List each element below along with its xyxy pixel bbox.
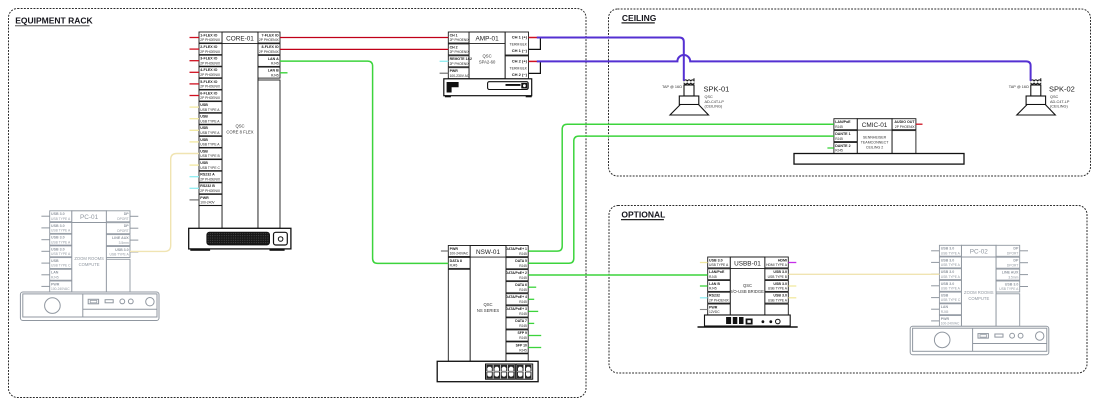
PC-01 port DP DPORT (right 2) (106, 223, 138, 234)
svg-text:LAN B: LAN B (268, 69, 279, 73)
USBB-01 port USB 3.0 (right 4) (765, 292, 796, 303)
svg-text:CEILING 2: CEILING 2 (866, 145, 883, 149)
svg-text:QSC: QSC (483, 302, 492, 307)
NSW-01 port SFP 10 (right 9) (506, 342, 541, 353)
svg-text:2P PHOENIX: 2P PHOENIX (200, 38, 221, 42)
svg-text:HDMI TYPE A: HDMI TYPE A (766, 263, 788, 267)
CORE-01 port USB USB TYPE A (left 8) (190, 113, 223, 124)
svg-text:USB TYPE A: USB TYPE A (200, 108, 220, 112)
svg-text:USB: USB (200, 115, 208, 119)
svg-text:DPORT: DPORT (117, 229, 128, 233)
CORE-01 port LAN A RJ45 (right 3) (258, 55, 280, 66)
svg-text:100-240VAC: 100-240VAC (941, 322, 960, 326)
CORE-01 port LAN B RJ45 (right 4) (258, 67, 280, 78)
wire PC-01 USB 3.0 to CORE-01 USB TYPE B (yellow USB) (130, 154, 199, 252)
svg-text:EQUIPMENT RACK: EQUIPMENT RACK (15, 16, 93, 26)
svg-text:USB 3.0: USB 3.0 (51, 212, 65, 216)
CMIC-01 ceiling microphone physical bar (794, 154, 964, 165)
svg-text:CH 2 (−): CH 2 (−) (512, 72, 528, 77)
CORE-01 port 4-FLEX IO 2P PHOENIX (left 4) (190, 67, 223, 78)
PC-01 port PWR 100-240VAC (left 7) (41, 281, 71, 292)
svg-text:USB TYPE B: USB TYPE B (768, 275, 788, 279)
svg-text:USB: USB (200, 126, 208, 130)
svg-text:DANTE 2: DANTE 2 (835, 144, 850, 148)
NSW-01 port DATA/PoE+ 2 (right 3) (506, 270, 529, 281)
CORE-01 port 8-FLEX IO 2P PHOENIX (right 2) (258, 44, 280, 55)
NSW-01 port DATA/PoE+ 3 (right 6) (506, 306, 539, 317)
CORE-01 port USB USB TYPE C (left 12) (190, 160, 223, 171)
PC-02 port USB 3.0 USB TYPE A (right 4) (996, 281, 1028, 292)
svg-text:CH 1: CH 1 (450, 33, 458, 37)
svg-text:PWR: PWR (709, 305, 718, 309)
CORE-01 port USB USB TYPE A (left 9) (190, 125, 223, 136)
device PC-01 Zoom Rooms computer (72, 211, 130, 293)
CMIC-01 port DANTE 2 (left 3) (827, 143, 857, 154)
svg-text:USB TYPE A: USB TYPE A (768, 287, 788, 291)
svg-text:USB TYPE B: USB TYPE B (200, 154, 220, 158)
svg-text:CH 2 (+): CH 2 (+) (512, 59, 528, 64)
device AMP-01 QSC SPA2-60 amplifier (469, 32, 505, 79)
svg-text:LAN: LAN (941, 305, 949, 309)
CORE-01 port 2-FLEX IO 2P PHOENIX (left 2) (190, 44, 223, 55)
svg-text:USB 3.0: USB 3.0 (115, 248, 129, 252)
svg-text:USB TYPE A: USB TYPE A (51, 217, 71, 221)
svg-text:TAP @ 16Ω: TAP @ 16Ω (662, 85, 682, 89)
svg-text:DATA 5: DATA 5 (515, 259, 527, 263)
svg-text:NS SERIES: NS SERIES (477, 308, 500, 313)
svg-text:USB 3.0: USB 3.0 (773, 270, 787, 274)
svg-text:USB TYPE A: USB TYPE A (941, 263, 961, 267)
svg-text:COMPUTE: COMPUTE (79, 262, 100, 267)
svg-text:RJ45: RJ45 (519, 336, 527, 340)
svg-text:USB TYPE A: USB TYPE A (51, 229, 71, 233)
svg-text:USB TYPE A: USB TYPE A (941, 251, 961, 255)
device CORE-01 QSC Core 8 Flex (199, 32, 280, 228)
speaker SPK-02 QSC AD-C4T-LP ceiling (1009, 78, 1075, 115)
svg-text:2P PHOENIX: 2P PHOENIX (200, 177, 221, 181)
svg-text:SFP 9: SFP 9 (518, 331, 527, 335)
CORE-01 port USB USB TYPE A (left 7) (190, 102, 223, 113)
svg-text:RJ45: RJ45 (835, 125, 843, 129)
svg-text:COMPUTE: COMPUTE (968, 296, 989, 301)
CORE-01 rack unit front panel (189, 228, 291, 250)
svg-text:AUDIO OUT: AUDIO OUT (894, 120, 915, 124)
svg-text:QSC: QSC (483, 54, 492, 59)
USBB-01 port LAN B (left 3) (700, 281, 730, 292)
svg-text:PWR: PWR (51, 282, 60, 286)
svg-text:DATA 6: DATA 6 (515, 283, 527, 287)
svg-text:USBB-01: USBB-01 (734, 260, 761, 267)
svg-text:USB TYPE A: USB TYPE A (999, 287, 1019, 291)
svg-text:2P PHOENIX: 2P PHOENIX (450, 50, 471, 54)
svg-text:USB 3.0: USB 3.0 (773, 294, 787, 298)
svg-text:CMIC-01: CMIC-01 (862, 122, 888, 129)
svg-text:USB: USB (200, 149, 208, 153)
svg-text:DATA/PoE+ 3: DATA/PoE+ 3 (506, 307, 527, 311)
USBB-01 port HDMI (right 1) (765, 257, 796, 268)
wire AMP-01 CH 1 (-) return to speaker pair (529, 38, 541, 49)
svg-text:2P PHOENIX: 2P PHOENIX (259, 50, 280, 54)
svg-text:DPORT: DPORT (1007, 263, 1018, 267)
device USBB-01 QSC I/O USB bridge (730, 257, 788, 315)
svg-text:12VDC: 12VDC (709, 310, 720, 314)
svg-text:2P PHOENIX: 2P PHOENIX (200, 61, 221, 65)
svg-text:RJ45: RJ45 (835, 149, 843, 153)
svg-text:CORE 8 FLEX: CORE 8 FLEX (226, 130, 253, 135)
svg-text:USB TYPE C: USB TYPE C (51, 264, 71, 268)
svg-text:PWR: PWR (450, 247, 459, 251)
CORE-01 port USB USB TYPE A (left 10) (190, 136, 223, 147)
svg-text:QSC: QSC (705, 95, 713, 99)
wire NSW-01 DATA/PoE+ 1 to CMIC-01 LAN/PoE (green) (528, 124, 834, 251)
svg-text:DP: DP (1013, 247, 1019, 251)
svg-text:(CEILING): (CEILING) (705, 105, 723, 109)
svg-text:USB 3.0: USB 3.0 (51, 236, 65, 240)
svg-text:TERM BLK: TERM BLK (509, 42, 527, 46)
svg-text:100-240V: 100-240V (200, 201, 215, 205)
svg-text:USB TYPE A: USB TYPE A (51, 240, 71, 244)
AMP-01 port CH 1 (left 1) (448, 32, 470, 43)
svg-text:SPK-01: SPK-01 (704, 85, 730, 94)
svg-text:TERM BLK: TERM BLK (509, 66, 527, 70)
NSW-01 port DATA/PoE+ 4 (right 5) (506, 294, 535, 305)
PC-01 port USB 3.0 USB TYPE A (left 2) (41, 223, 71, 234)
svg-text:RJ45: RJ45 (835, 137, 843, 141)
wire AMP-01 CH 2 (+) red stub (529, 60, 538, 62)
NSW-01 port DATA 8 (left 2) (448, 257, 470, 268)
PC-02 port DP DPORT (right 1) (996, 245, 1028, 256)
USBB-01 port RS232 (left 4) (700, 292, 730, 303)
svg-text:DPORT: DPORT (1007, 252, 1018, 256)
wire CORE-01 LAN A to NSW-01 DATA 8 (green network) (280, 61, 448, 263)
NSW-01 port DATA 6 (right 4) (506, 282, 536, 293)
USBB-01 bridge physical unit (698, 315, 798, 327)
svg-text:USB 3.0: USB 3.0 (51, 224, 65, 228)
PC-02 port DP DPORT (right 2) (996, 257, 1028, 268)
svg-text:2P PHOENIX: 2P PHOENIX (200, 50, 221, 54)
svg-text:RJ45: RJ45 (51, 275, 59, 279)
svg-text:100-240VAC: 100-240VAC (51, 287, 70, 291)
CORE-01 port 3-FLEX IO 2P PHOENIX (left 3) (190, 55, 223, 66)
wire AMP-01 CH 1 to SPK-01 (purple speaker cable) (537, 38, 684, 81)
svg-text:USB 3.0: USB 3.0 (1005, 282, 1019, 286)
svg-text:CORE-01: CORE-01 (226, 36, 254, 43)
svg-text:2P PHOENIX: 2P PHOENIX (259, 38, 280, 42)
svg-text:ZOOM ROOMS: ZOOM ROOMS (964, 290, 994, 295)
svg-text:RJ45: RJ45 (709, 275, 717, 279)
svg-text:8-FLEX IO: 8-FLEX IO (262, 45, 279, 49)
PC-02 port USB 3.0 USB TYPE A (left 3) (931, 269, 961, 280)
wire AMP-01 CH 2 (-) return to speaker pair (529, 62, 541, 73)
section box EQUIPMENT RACK (9, 9, 587, 398)
svg-text:DATA/PoE+ 1: DATA/PoE+ 1 (506, 247, 527, 251)
svg-text:RS232 B: RS232 B (200, 184, 215, 188)
svg-text:USB TYPE A: USB TYPE A (200, 119, 220, 123)
NSW-01 port DATA 5 (right 2) (506, 258, 528, 269)
svg-text:USB TYPE A: USB TYPE A (709, 263, 729, 267)
svg-text:RJ45: RJ45 (519, 324, 527, 328)
svg-text:USB 3.0: USB 3.0 (941, 282, 955, 286)
PC-01 port USB 3.0 USB TYPE A (right 4) (106, 247, 138, 258)
svg-text:USB TYPE A: USB TYPE A (200, 131, 220, 135)
svg-text:USB 3.0: USB 3.0 (941, 247, 955, 251)
svg-text:QSC: QSC (235, 124, 244, 129)
svg-text:RJ45: RJ45 (519, 276, 527, 280)
svg-text:LAN: LAN (51, 271, 59, 275)
svg-text:3.5mm: 3.5mm (119, 241, 129, 245)
wire USBB-01 USB 3.0 TYPE B to PC-02 USB 3.0 (yellow USB) (788, 273, 939, 275)
svg-text:RJ45: RJ45 (941, 310, 949, 314)
CORE-01 port PWR 100-240V (left 15) (190, 194, 223, 205)
svg-text:2-FLEX IO: 2-FLEX IO (200, 45, 217, 49)
AMP-01 speaker output CH 2 terminal block (505, 56, 528, 79)
svg-text:DATA/PoE+ 2: DATA/PoE+ 2 (506, 271, 527, 275)
svg-text:TAP @ 16Ω: TAP @ 16Ω (1009, 85, 1029, 89)
svg-text:2P PHOENIX: 2P PHOENIX (895, 125, 916, 129)
svg-text:NSW-01: NSW-01 (476, 249, 500, 256)
svg-text:DP: DP (124, 212, 130, 216)
USBB-01 port PWR (left 5) (700, 304, 730, 315)
svg-text:LAN/PoE: LAN/PoE (835, 120, 851, 124)
PC-01 port USB USB TYPE C (left 5) (41, 258, 71, 269)
svg-text:3-FLEX IO: 3-FLEX IO (200, 57, 217, 61)
svg-text:CH 1 (+): CH 1 (+) (512, 35, 528, 40)
PC-02 computer physical unit (910, 326, 1049, 355)
svg-text:PC-02: PC-02 (970, 249, 989, 256)
AMP-01 port REMOTE 1&2 (left 3) (440, 56, 472, 67)
PC-02 port USB USB TYPE C (left 5) (931, 292, 961, 303)
svg-text:QSC: QSC (743, 283, 752, 288)
CORE-01 port RS232 B 2P PHOENIX (left 14) (190, 183, 223, 194)
CORE-01 port 5-FLEX IO 2P PHOENIX (left 5) (190, 78, 223, 89)
svg-text:USB: USB (200, 103, 208, 107)
svg-text:PWR: PWR (450, 69, 459, 73)
svg-text:CH 2: CH 2 (450, 45, 458, 49)
PC-02 port PWR 100-240VAC (left 7) (931, 316, 961, 327)
svg-text:TEAMCONNECT: TEAMCONNECT (861, 140, 890, 144)
svg-text:REMOTE 1&2: REMOTE 1&2 (450, 57, 472, 61)
USBB-01 port USB 3.0 (left 1) (700, 257, 730, 268)
svg-text:QSC: QSC (1050, 95, 1058, 99)
PC-01 port USB 3.0 USB TYPE A (left 1) (41, 211, 71, 222)
svg-text:DATA 7: DATA 7 (515, 319, 527, 323)
svg-text:CH 1 (−): CH 1 (−) (512, 48, 528, 53)
svg-text:USB: USB (200, 161, 208, 165)
PC-01 port USB 3.0 USB TYPE A (left 4) (41, 246, 71, 257)
USBB-01 port LAN/PoE (left 2) (708, 269, 731, 280)
PC-01 port LINE AUX 3.5mm (right 3) (106, 235, 138, 246)
svg-text:USB TYPE A: USB TYPE A (941, 275, 961, 279)
wire AMP-01 CH 2 to SPK-02 (purple speaker cable, hops over SPK-01 drop) (537, 55, 1031, 81)
CORE-01 port RS232 A 2P PHOENIX (left 13) (190, 171, 223, 182)
svg-text:RS232: RS232 (709, 294, 720, 298)
svg-text:2P PHOENIX: 2P PHOENIX (200, 96, 221, 100)
svg-text:2P PHOENIX: 2P PHOENIX (450, 62, 471, 66)
svg-text:LINE AUX: LINE AUX (112, 236, 129, 240)
svg-text:USB 3.0: USB 3.0 (941, 270, 955, 274)
wire CORE-01 7-FLEX IO to AMP-01 CH 1 (red audio pair) (280, 37, 448, 39)
svg-text:ZOOM ROOMS: ZOOM ROOMS (74, 256, 104, 261)
svg-text:AD-C4T-LP: AD-C4T-LP (705, 100, 725, 104)
svg-text:3.5mm: 3.5mm (1008, 275, 1018, 279)
svg-text:USB TYPE C: USB TYPE C (200, 166, 220, 170)
wire CORE-01 8-FLEX IO to AMP-01 CH 2 (red audio pair) (280, 48, 448, 50)
svg-text:RJ45: RJ45 (271, 73, 279, 77)
svg-text:5-FLEX IO: 5-FLEX IO (200, 80, 217, 84)
svg-text:DATA/PoE+ 4: DATA/PoE+ 4 (506, 295, 527, 299)
wire CORE-01 LAN B stub (green) (280, 72, 288, 74)
NSW-01 port PWR (left 1) (441, 246, 470, 257)
svg-text:AD-C4T-LP: AD-C4T-LP (1050, 100, 1070, 104)
USBB-01 port USB 3.0 (right 2) (765, 269, 788, 280)
svg-text:I/O-USB BRIDGE: I/O-USB BRIDGE (731, 289, 764, 294)
svg-text:RJ45: RJ45 (519, 312, 527, 316)
svg-text:USB TYPE A: USB TYPE A (110, 253, 130, 257)
AMP-01 amplifier physical unit (444, 79, 532, 97)
svg-text:4-FLEX IO: 4-FLEX IO (200, 68, 217, 72)
svg-text:USB: USB (51, 259, 59, 263)
speaker SPK-01 QSC AD-C4T-LP ceiling (662, 78, 729, 115)
CMIC-01 port LAN/PoE (left 1) (834, 119, 857, 130)
svg-text:LAN B: LAN B (709, 282, 720, 286)
svg-text:OPTIONAL: OPTIONAL (621, 210, 665, 220)
svg-text:6-FLEX IO: 6-FLEX IO (200, 91, 217, 95)
svg-text:100-240VAC: 100-240VAC (450, 252, 469, 256)
svg-text:1-FLEX IO: 1-FLEX IO (200, 33, 217, 37)
svg-text:USB 3.0: USB 3.0 (51, 247, 65, 251)
PC-01 port LAN RJ45 (left 6) (41, 269, 71, 280)
svg-text:DP: DP (1013, 259, 1019, 263)
svg-text:USB TYPE A: USB TYPE A (768, 298, 788, 302)
svg-text:RJ45: RJ45 (271, 62, 279, 66)
svg-text:RJ45: RJ45 (519, 300, 527, 304)
NSW-01 network switch physical unit with RJ45 jacks (437, 361, 538, 381)
svg-text:USB TYPE C: USB TYPE C (941, 298, 961, 302)
svg-text:2P PHOENIX: 2P PHOENIX (200, 189, 221, 193)
svg-text:RJ45: RJ45 (519, 252, 527, 256)
svg-text:SENNHEISER: SENNHEISER (863, 135, 887, 139)
USBB-01 port USB 3.0 (right 3) (765, 281, 796, 292)
svg-text:(CEILING): (CEILING) (1050, 105, 1068, 109)
svg-text:SPA2-60: SPA2-60 (479, 60, 496, 65)
svg-text:PWR: PWR (200, 196, 209, 200)
svg-text:2P PHOENIX: 2P PHOENIX (450, 38, 471, 42)
wire NSW-01 DATA/PoE+ 2 to USBB-01 LAN/PoE (green) (528, 274, 708, 276)
CORE-01 port 1-FLEX IO 2P PHOENIX (left 1) (190, 32, 223, 43)
device CMIC-01 Sennheiser TeamConnect Ceiling 2 mic (857, 119, 916, 154)
PC-02 port USB 3.0 USB TYPE A (left 4) (931, 280, 961, 291)
svg-text:RJ45: RJ45 (519, 264, 527, 268)
svg-text:2P PHOENIX: 2P PHOENIX (200, 85, 221, 89)
PC-02 port USB 3.0 USB TYPE A (left 2) (931, 257, 961, 268)
PC-02 port LINE AUX 3.5mm (right 3) (996, 269, 1028, 280)
CORE-01 port 7-FLEX IO 2P PHOENIX (right 1) (258, 32, 280, 43)
svg-text:PWR: PWR (941, 317, 950, 321)
wire NSW-01 DATA 5 to CMIC-01 DANTE 1 (green) (528, 136, 834, 263)
svg-text:USB TYPE A: USB TYPE A (51, 252, 71, 256)
svg-text:USB 3.0: USB 3.0 (709, 258, 723, 262)
svg-text:DANTE 1: DANTE 1 (835, 132, 850, 136)
svg-text:LAN A: LAN A (268, 57, 279, 61)
wire AMP-01 CH 1 (+) red stub (529, 37, 538, 39)
svg-text:2P PHOENIX: 2P PHOENIX (709, 298, 730, 302)
svg-text:DPORT: DPORT (117, 217, 128, 221)
svg-text:CEILING: CEILING (622, 13, 657, 23)
section box CEILING (609, 9, 1091, 176)
svg-text:RJ45: RJ45 (450, 264, 458, 268)
svg-text:USB TYPE A: USB TYPE A (200, 143, 220, 147)
PC-02 port LAN RJ45 (left 6) (931, 304, 961, 315)
PC-01 port DP DPORT (right 1) (106, 211, 138, 222)
device PC-02 Zoom Rooms computer (961, 245, 1019, 326)
AMP-01 speaker output CH 1 terminal block (505, 32, 528, 55)
NSW-01 port DATA/PoE+ 1 (right 1) (506, 246, 529, 257)
svg-text:RJ45: RJ45 (519, 288, 527, 292)
svg-text:RJ45: RJ45 (519, 348, 527, 352)
CORE-01 port USB USB TYPE B (left 11) (199, 148, 222, 159)
svg-text:USB TYPE A: USB TYPE A (941, 287, 961, 291)
AMP-01 port PWR (left 4) (440, 68, 470, 79)
PC-01 port USB 3.0 USB TYPE A (left 3) (41, 234, 71, 245)
PC-01 computer physical unit (20, 292, 159, 321)
svg-text:RS232 A: RS232 A (200, 173, 215, 177)
svg-text:100-230V AC: 100-230V AC (450, 74, 470, 78)
svg-text:7-FLEX IO: 7-FLEX IO (262, 33, 279, 37)
svg-text:RJ45: RJ45 (709, 287, 717, 291)
svg-text:DP: DP (124, 224, 130, 228)
svg-text:SPK-02: SPK-02 (1049, 85, 1075, 94)
svg-text:2P PHOENIX: 2P PHOENIX (200, 73, 221, 77)
svg-text:LINE AUX: LINE AUX (1002, 271, 1019, 275)
svg-text:HDMI: HDMI (778, 258, 787, 262)
svg-text:PC-01: PC-01 (80, 214, 99, 221)
NSW-01 port DATA 7 (right 7) (506, 318, 534, 329)
svg-text:DATA 8: DATA 8 (450, 259, 462, 263)
svg-text:SFP 10: SFP 10 (516, 343, 527, 347)
CORE-01 port 6-FLEX IO 2P PHOENIX (left 6) (190, 90, 223, 101)
PC-02 port USB 3.0 USB TYPE A (left 1) (931, 245, 961, 256)
CMIC-01 port AUDIO OUT 2P PHOENIX (right) (892, 119, 922, 130)
svg-text:USB: USB (941, 294, 949, 298)
AMP-01 port CH 2 (left 2) (448, 44, 470, 55)
svg-text:USB 3.0: USB 3.0 (941, 258, 955, 262)
section box OPTIONAL (609, 206, 1087, 374)
device NSW-01 QSC NS series network switch (448, 246, 528, 362)
svg-text:AMP-01: AMP-01 (476, 36, 500, 43)
NSW-01 port SFP 9 (right 8) (506, 330, 541, 341)
svg-text:USB: USB (200, 138, 208, 142)
svg-text:USB 3.0: USB 3.0 (773, 282, 787, 286)
svg-text:LAN/PoE: LAN/PoE (709, 270, 725, 274)
CMIC-01 port DANTE 1 (left 2) (834, 131, 857, 142)
